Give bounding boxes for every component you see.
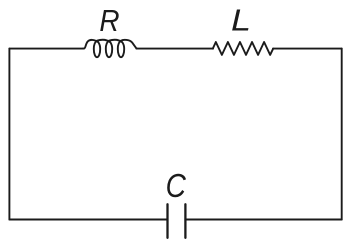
- wire: bottom left segment: [9, 219, 167, 221]
- svg-text:L: L: [231, 4, 251, 38]
- resistor L (zigzag): [213, 42, 273, 55]
- wire: top right segment: [273, 48, 342, 50]
- wire: top left segment: [9, 48, 83, 50]
- svg-text:R: R: [99, 4, 119, 39]
- capacitor C left plate: [166, 204, 168, 238]
- wire: left vertical side: [8, 49, 10, 220]
- capacitor C right plate: [184, 204, 186, 238]
- inductor coil R: [83, 40, 137, 57]
- wire: top middle segment: [137, 48, 213, 50]
- wire: right vertical side: [341, 49, 343, 220]
- wire: bottom right segment: [185, 219, 341, 221]
- svg-text:C: C: [166, 168, 187, 205]
